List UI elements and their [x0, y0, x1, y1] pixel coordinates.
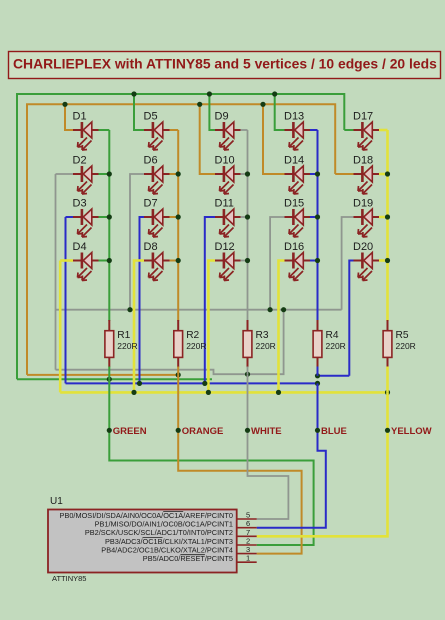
junction blue bottom / R4 vertical: [315, 381, 320, 386]
wire column 1 stub at y130: [99, 129, 110, 131]
wire D17 anode stub: [344, 129, 353, 131]
LED D2: [73, 155, 99, 195]
wire D5 anode feed (green): [134, 94, 144, 130]
junction col4 vertical row4: [315, 258, 320, 263]
svg-text:220R: 220R: [256, 341, 276, 351]
wire column 3 stub at y217: [241, 216, 248, 218]
junction yellow bottom / D16 feed: [276, 390, 281, 395]
junction col2 vertical row2: [176, 171, 181, 176]
wire column 3 stub at y130: [241, 129, 248, 131]
resistor R4 220R: [313, 320, 346, 367]
resistor R2 220R: [174, 320, 207, 367]
svg-text:D8: D8: [144, 241, 158, 253]
svg-text:D1: D1: [73, 111, 87, 123]
junction net label anchor YELLOW: [385, 428, 390, 433]
wire GREEN net to pin2: [109, 379, 313, 545]
junction net label anchor WHITE: [245, 428, 250, 433]
LED D14: [284, 155, 310, 195]
svg-text:PB0/MOSI/DI/SDA/AIN0/OC0A/OC1A: PB0/MOSI/DI/SDA/AIN0/OC0A/OC1A/AREF/PCIN…: [60, 511, 233, 520]
wire D14 anode feed (orange): [263, 104, 285, 174]
wire D18 anode stub: [335, 173, 353, 175]
junction white mid bus / lower link: [281, 307, 286, 312]
svg-text:D13: D13: [284, 111, 304, 123]
junction green bus / D13 feed: [272, 91, 277, 96]
wire D19 anode feed (white): [342, 217, 354, 310]
wire D9 anode feed (green): [209, 94, 215, 130]
wire column 2 stub at y130: [170, 129, 179, 131]
svg-text:R5: R5: [396, 330, 409, 341]
svg-text:PB2/SCK/USCK/SCL/ADC1/T0/INT0/: PB2/SCK/USCK/SCL/ADC1/T0/INT0/PCINT2: [85, 528, 233, 537]
svg-text:D14: D14: [284, 155, 304, 167]
wire R4 bottom stub: [317, 367, 319, 376]
wire white mid bus: [56, 309, 342, 311]
wire green top bus: [17, 94, 344, 379]
wire column 2 stub at y260: [170, 260, 179, 262]
svg-text:5: 5: [246, 511, 250, 520]
title box: [9, 52, 441, 79]
wire green bottom bus: [17, 378, 212, 380]
wire column 4 stub at y130: [310, 129, 318, 131]
svg-text:1: 1: [246, 554, 250, 563]
wire column 3 stub at y260: [241, 260, 248, 262]
wire D3 anode feed (blue): [65, 217, 67, 383]
junction orange bus / D10 feed: [197, 102, 202, 107]
wire column 4 stub at y174: [310, 173, 318, 175]
junction white mid bus / D15 feed: [268, 307, 273, 312]
LED D1: [73, 111, 99, 151]
wire column 1 stub at y174: [99, 173, 110, 175]
junction blue bottom / D7 feed: [137, 381, 142, 386]
pin 7 stub: [237, 535, 257, 537]
junction blue short / R4: [315, 373, 320, 378]
LED D4: [73, 241, 99, 281]
svg-text:D2: D2: [73, 155, 87, 167]
wire yellow bottom bus: [60, 391, 388, 394]
wire column 5 stub at y260: [379, 259, 388, 262]
svg-text:D19: D19: [353, 198, 373, 210]
wire column 5 collector vertical: [386, 130, 389, 321]
LED D11: [215, 198, 241, 238]
wire orange top bus: [27, 104, 335, 375]
wire column 4 collector vertical: [317, 130, 319, 321]
wire D11 anode feed (blue): [205, 217, 215, 383]
wire column 5 stub at y174: [379, 173, 388, 176]
LED D7: [144, 198, 170, 238]
svg-text:220R: 220R: [186, 341, 206, 351]
svg-text:D16: D16: [284, 241, 304, 253]
wire column 1 collector vertical: [108, 130, 110, 321]
svg-text:220R: 220R: [326, 341, 346, 351]
svg-text:D12: D12: [215, 241, 235, 253]
svg-text:7: 7: [246, 528, 250, 537]
LED D8: [144, 241, 170, 281]
svg-text:D17: D17: [353, 111, 373, 123]
wire ORANGE net to pin3: [178, 375, 301, 554]
wire D3 anode stub: [66, 216, 74, 218]
LED D18: [353, 155, 379, 195]
svg-text:D20: D20: [353, 241, 373, 253]
wire R2 bottom stub: [177, 367, 179, 375]
wire column 1 stub at y260: [99, 260, 110, 262]
wire WHITE net to pin5: [248, 374, 289, 519]
junction green bus / D5 feed: [131, 91, 136, 96]
IC U1 ATTINY85 body: [48, 510, 237, 573]
wire orange bottom bus: [27, 374, 178, 376]
svg-text:WHITE: WHITE: [251, 426, 282, 437]
junction col1 vertical row4: [107, 258, 112, 263]
junction orange bottom / R2: [176, 372, 181, 377]
wire BLUE net to pin6: [257, 383, 326, 527]
svg-text:R2: R2: [186, 330, 199, 341]
LED D19: [353, 198, 379, 238]
svg-text:PB5/ADC0/RESET/PCINT5: PB5/ADC0/RESET/PCINT5: [143, 554, 233, 563]
LED D16: [284, 241, 310, 281]
wire D13 anode feed (green): [275, 94, 285, 130]
svg-text:CHARLIEPLEX with ATTINY85 and: CHARLIEPLEX with ATTINY85 and 5 vertices…: [13, 56, 437, 72]
junction col3 vertical row2: [245, 171, 250, 176]
svg-text:R4: R4: [326, 330, 339, 341]
wire D15 anode feed (white): [270, 217, 284, 310]
wire column 4 stub at y217: [310, 216, 318, 218]
junction col5 vertical row3: [385, 214, 390, 219]
junction net label anchor GREEN: [107, 428, 112, 433]
wire D16 anode feed (yellow): [279, 261, 285, 393]
wire column 5 stub at y130: [379, 129, 388, 132]
junction col2 vertical row3: [176, 214, 181, 219]
svg-text:D18: D18: [353, 155, 373, 167]
resistor R5 220R: [383, 320, 416, 367]
wire white lower-left bus: [56, 310, 284, 375]
svg-text:R1: R1: [117, 330, 130, 341]
LED D20: [353, 241, 379, 281]
pin 2 stub: [237, 544, 257, 546]
junction green bottom / R1: [107, 377, 112, 382]
junction yellow bottom / R5: [385, 390, 390, 395]
wire column 3 collector vertical: [247, 130, 249, 321]
junction net label anchor ORANGE: [176, 428, 181, 433]
wire R1 bottom stub: [108, 367, 110, 380]
junction col5 vertical row4: [385, 258, 390, 263]
LED D17: [353, 111, 379, 151]
wire D20 anode feed (blue): [349, 261, 353, 376]
svg-text:D3: D3: [73, 198, 87, 210]
junction col5 vertical row2: [385, 171, 390, 176]
resistor R1 220R: [105, 320, 138, 367]
wire blue bottom bus: [66, 382, 318, 384]
junction col2 vertical row4: [176, 258, 181, 263]
junction col1 vertical row3: [107, 214, 112, 219]
wire blue short segment to D20: [317, 375, 349, 377]
wire D2 anode feed (white): [55, 174, 57, 370]
junction green bus / D9 feed: [207, 91, 212, 96]
wire D8 anode feed (yellow): [134, 261, 144, 393]
junction white lower / R3: [245, 372, 250, 377]
wire column 2 stub at y217: [170, 216, 179, 218]
junction net label anchor BLUE: [315, 428, 320, 433]
wire D1 anode feed (orange): [65, 104, 73, 130]
junction orange bus / D14 feed: [260, 102, 265, 107]
junction yellow bottom / D12 feed: [206, 390, 211, 395]
LED D15: [284, 198, 310, 238]
pin 1 stub: [237, 561, 257, 563]
wire D7 anode feed (blue): [140, 217, 145, 383]
junction col3 vertical row4: [245, 258, 250, 263]
wire D4 anode feed (yellow): [59, 261, 62, 393]
svg-text:D15: D15: [284, 198, 304, 210]
wire column 5 stub at y217: [379, 216, 388, 219]
svg-text:U1: U1: [50, 496, 63, 507]
svg-text:D6: D6: [144, 155, 158, 167]
svg-text:ORANGE: ORANGE: [182, 426, 224, 437]
LED D9: [215, 111, 241, 151]
wire YELLOW net to pin7: [257, 392, 388, 536]
wire D12 anode feed (yellow): [208, 261, 215, 393]
wire D10 anode feed (orange): [200, 104, 215, 174]
LED D6: [144, 155, 170, 195]
svg-text:220R: 220R: [117, 341, 137, 351]
svg-text:GREEN: GREEN: [113, 426, 147, 437]
pin 6 stub: [237, 527, 257, 529]
junction col3 vertical row3: [245, 214, 250, 219]
junction yellow bottom / D8 feed: [131, 390, 136, 395]
svg-text:D7: D7: [144, 198, 158, 210]
wire R5 bottom stub: [386, 367, 389, 393]
junction orange bus / D1 feed: [62, 102, 67, 107]
pin 3 stub: [237, 553, 257, 555]
junction blue bottom / D11 feed: [202, 381, 207, 386]
svg-text:ATTINY85: ATTINY85: [52, 574, 86, 583]
junction white mid bus / D6 feed: [127, 307, 132, 312]
svg-text:BLUE: BLUE: [321, 426, 347, 437]
junction col1 vertical row2: [107, 171, 112, 176]
LED D13: [284, 111, 310, 151]
wire D2 anode stub: [56, 173, 74, 175]
wire column 2 collector vertical: [177, 130, 179, 321]
wire column 3 stub at y174: [241, 173, 248, 175]
LED D12: [215, 241, 241, 281]
wire column 4 stub at y260: [310, 260, 318, 262]
wire D4 anode stub: [60, 259, 73, 262]
svg-text:D10: D10: [215, 155, 235, 167]
svg-text:D5: D5: [144, 111, 158, 123]
wire column 2 stub at y174: [170, 173, 179, 175]
pin 5 stub: [237, 518, 257, 520]
svg-text:D11: D11: [215, 198, 234, 210]
wire column 1 stub at y217: [99, 216, 110, 218]
svg-text:YELLOW: YELLOW: [391, 426, 432, 437]
svg-text:R3: R3: [256, 330, 269, 341]
resistor R3 220R: [243, 320, 276, 367]
junction col4 vertical row2: [315, 171, 320, 176]
junction col4 vertical row3: [315, 214, 320, 219]
wire D6 anode feed (white): [130, 174, 144, 310]
LED D10: [215, 155, 241, 195]
svg-text:D4: D4: [73, 241, 87, 253]
LED D5: [144, 111, 170, 151]
LED D3: [73, 198, 99, 238]
wire R3 bottom stub: [247, 367, 249, 375]
svg-text:D9: D9: [215, 111, 229, 123]
svg-text:220R: 220R: [396, 341, 416, 351]
